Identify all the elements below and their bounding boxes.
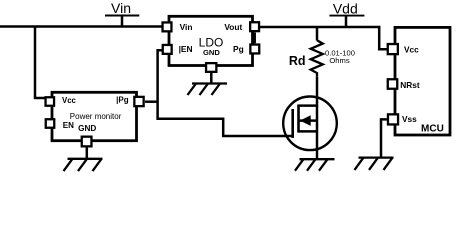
svg-text:Ohms: Ohms [329, 56, 349, 65]
svg-text:Vout: Vout [224, 22, 242, 32]
svg-text:Vdd: Vdd [333, 1, 358, 17]
svg-text:Vcc: Vcc [404, 45, 419, 55]
power monitor pin EN [46, 119, 55, 128]
power monitor pin Vcc [46, 97, 55, 106]
resistor Rd [311, 40, 323, 77]
Q1 body lead with arrow [299, 119, 318, 122]
svg-text:Vin: Vin [180, 22, 193, 32]
svg-text:LDO: LDO [199, 35, 224, 49]
MCU pin NRst [388, 79, 398, 89]
power monitor pin GND [82, 137, 92, 147]
Q1 source lead [299, 130, 318, 133]
MCU pin Vcc [388, 44, 398, 54]
node Vin supply symbol [105, 16, 139, 27]
ground below MCU Vss [355, 158, 394, 170]
svg-text:Vin: Vin [111, 0, 131, 16]
wire to power monitor Vcc [35, 27, 45, 99]
LDO pin EN [163, 45, 172, 54]
Q1 drain-source vertical [316, 106, 319, 160]
LDO pin Pg [250, 45, 259, 54]
LDO pin Vout [250, 22, 259, 31]
svg-text:|Pg: |Pg [116, 96, 129, 105]
wire main Vin rail left [0, 25, 162, 28]
wire Vout to MCU Vcc rail [260, 26, 380, 29]
wire power monitor Pg stub [145, 100, 158, 103]
resistor Rd value label 0.01-100 Ohms [325, 48, 355, 65]
svg-text:Power monitor: Power monitor [70, 112, 122, 121]
svg-text:Pg: Pg [233, 44, 244, 54]
node Vdd supply symbol [329, 16, 364, 27]
wire Vout to Pg tie [253, 33, 256, 44]
svg-text:NRst: NRst [400, 80, 420, 90]
wire LDO GND to ground [210, 73, 213, 84]
LDO pin Vin [163, 22, 172, 31]
MCU pin Vss [388, 114, 398, 124]
LDO pin GND [206, 63, 216, 72]
wire power monitor GND to ground [86, 147, 89, 158]
Q1 channel bar [297, 105, 300, 133]
svg-text:Vss: Vss [402, 114, 417, 124]
wire MCU Vss to ground [381, 119, 387, 157]
LDO block U1 [163, 16, 260, 72]
svg-text:|EN: |EN [179, 44, 193, 54]
Q1 gate bar [291, 109, 294, 138]
transistor Q1 NMOS [283, 97, 337, 160]
wire LDO EN to power monitor Pg to Q1 gate [158, 50, 292, 136]
wire rail to resistor Rd [316, 27, 319, 41]
svg-text:Rd: Rd [289, 54, 306, 68]
svg-text:MCU: MCU [421, 123, 444, 134]
svg-text:GND: GND [78, 124, 96, 133]
svg-text:EN: EN [63, 121, 74, 130]
ground below power monitor [64, 159, 103, 171]
MCU block U3 [388, 27, 450, 135]
wire rail to MCU Vcc pin [379, 26, 387, 49]
wire Rd to transistor Q1 drain [316, 77, 319, 106]
power monitor block U2 [46, 92, 144, 146]
ground below Q1 source [295, 159, 335, 171]
ground below LDO [188, 84, 228, 96]
power monitor pin Pg [134, 97, 143, 106]
svg-text:Vcc: Vcc [62, 96, 77, 105]
Q1 drain lead [299, 104, 318, 107]
